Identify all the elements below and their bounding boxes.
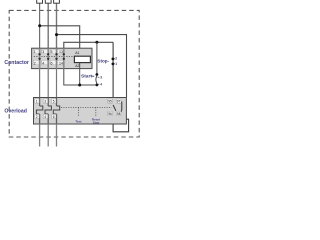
pin 4 overload <box>43 114 47 119</box>
no contact 97-98 <box>119 102 122 113</box>
wire: start branch vertical <box>96 42 98 74</box>
overload box F4 <box>34 98 127 125</box>
svg-text:Stop: Stop <box>93 121 100 125</box>
wire: motor lead T1 <box>39 124 41 147</box>
svg-text:13: 13 <box>59 50 63 54</box>
wire: 96 to 98 loop <box>113 119 129 132</box>
aux contact 13-14 <box>63 48 65 68</box>
svg-text:5: 5 <box>51 50 53 54</box>
trip contact 95-96 <box>113 105 116 111</box>
phase wire L1 <box>39 0 41 48</box>
wire: motor lead T2 <box>47 124 49 147</box>
wire: L1 tap to coil A1 <box>40 26 80 56</box>
svg-text:1: 1 <box>34 50 36 54</box>
svg-text:4: 4 <box>42 62 44 66</box>
svg-text:3: 3 <box>44 99 46 103</box>
coil K1 <box>74 56 90 62</box>
svg-text:A2: A2 <box>75 64 79 68</box>
svg-text:Test: Test <box>75 120 81 124</box>
svg-text:2: 2 <box>115 56 117 60</box>
pin 5 overload <box>52 99 56 104</box>
overload heater L1 <box>36 98 42 125</box>
pin 1 overload <box>35 99 39 104</box>
svg-text:Overload: Overload <box>4 108 27 114</box>
svg-text:1: 1 <box>115 62 117 66</box>
contactor linkage dashed <box>34 56 74 58</box>
svg-text:6: 6 <box>51 62 53 66</box>
junction dot coil A2 <box>78 84 81 87</box>
overload trip linkage dashed <box>61 106 112 108</box>
overload heater L3 <box>53 98 59 125</box>
svg-text:4: 4 <box>44 115 46 119</box>
svg-text:3: 3 <box>42 50 44 54</box>
test linkage dashed drop <box>78 107 80 116</box>
svg-text:6: 6 <box>53 115 55 119</box>
svg-text:97: 97 <box>117 100 121 104</box>
svg-text:4: 4 <box>100 82 102 86</box>
fuse F1 <box>37 0 43 3</box>
junction dot L3 tap <box>55 33 58 36</box>
wire: stop button drop through overload <box>112 42 114 124</box>
wire: motor lead T3 <box>56 124 58 147</box>
main contact 3-4 <box>47 48 49 68</box>
svg-text:5: 5 <box>53 99 55 103</box>
wire: aux 14 down <box>64 69 97 85</box>
enclosure dashed border <box>9 10 139 137</box>
svg-text:95: 95 <box>108 100 112 104</box>
pin 2 overload <box>35 114 39 119</box>
svg-text:Stop-: Stop- <box>97 58 109 63</box>
junction dot start branch <box>95 41 98 44</box>
reset linkage dashed drop <box>95 107 97 116</box>
phase wire L2 <box>47 0 49 48</box>
phase wire L3 <box>56 0 58 48</box>
svg-text:A1: A1 <box>75 51 79 55</box>
pin 3 overload <box>43 99 47 104</box>
main contact 1-2 <box>38 48 40 68</box>
svg-text:2: 2 <box>36 115 38 119</box>
wire: phase L1 between boxes <box>39 69 41 98</box>
wire: phase L2 between boxes <box>47 69 49 98</box>
wire: phase L3 between boxes <box>56 69 58 98</box>
svg-text:14: 14 <box>59 62 63 66</box>
wire: node line to aux 13 and stop button <box>64 42 113 48</box>
wire: coil A2 down <box>79 63 81 85</box>
fuse F2 <box>45 0 51 3</box>
pin 95 <box>108 99 113 104</box>
junction dot L1 tap <box>38 24 41 27</box>
contactor terminal cells <box>33 49 64 65</box>
main contact 5-6 <box>55 48 57 68</box>
contactor box K1 <box>32 48 92 68</box>
pin 97 <box>116 99 121 104</box>
pin 96 <box>108 111 113 116</box>
svg-text:98: 98 <box>117 112 121 116</box>
svg-text:3: 3 <box>100 76 102 80</box>
svg-text:Contactor: Contactor <box>4 60 29 66</box>
pin 6 overload <box>52 114 56 119</box>
start button S2 <box>92 73 100 86</box>
fuse F3 <box>54 0 60 3</box>
svg-text:2: 2 <box>34 62 36 66</box>
wire: L3 tap to overload right side <box>57 35 127 98</box>
overload heater L2 <box>45 98 51 125</box>
svg-text:1: 1 <box>36 99 38 103</box>
pin 98 <box>116 111 121 116</box>
svg-text:96: 96 <box>108 112 112 116</box>
svg-text:Start: Start <box>81 74 92 80</box>
stop button S1 <box>112 58 116 66</box>
